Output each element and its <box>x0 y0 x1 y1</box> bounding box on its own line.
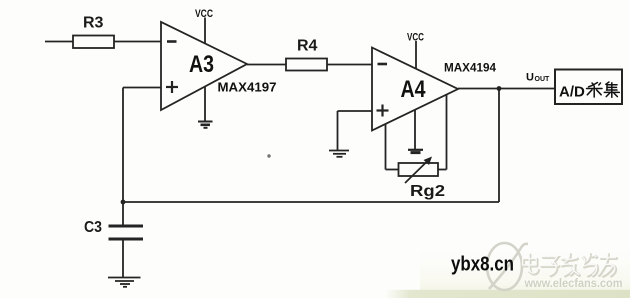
svg-text:A3: A3 <box>189 51 214 78</box>
VCC supply of A4 <box>407 32 424 69</box>
A/D acquisition box <box>555 70 622 105</box>
ground below C3 <box>108 278 141 287</box>
A4 minus pin mark <box>378 63 388 66</box>
wire A3 output to R4 <box>247 64 286 66</box>
svg-text:C3: C3 <box>84 219 102 236</box>
resistor R3 <box>73 36 114 49</box>
feedback wire bottom <box>123 89 499 203</box>
watermark url text <box>523 277 623 290</box>
wire Rg2 right to A4 output side <box>438 94 447 170</box>
A3 plus pin mark <box>166 81 178 93</box>
wire R3 to A3 inverting input <box>114 41 161 43</box>
wire A4 pin to Rg2 left <box>386 124 399 170</box>
svg-text:MAX4194: MAX4194 <box>444 61 496 75</box>
wire A3 plus input to left <box>123 88 161 203</box>
potentiometer Rg2 <box>399 157 439 184</box>
svg-text:R4: R4 <box>297 38 318 55</box>
node junction at C3 <box>121 200 126 205</box>
watermark brand glyphs <box>523 254 617 277</box>
svg-text:A/D: A/D <box>559 84 585 101</box>
stray ink speck <box>267 154 270 157</box>
A4 plus pin mark <box>377 105 389 117</box>
ground at A4 plus input <box>329 151 349 157</box>
resistor R4 <box>286 59 327 71</box>
ground below A4 <box>408 110 423 153</box>
capacitor C3 <box>109 202 144 277</box>
watermark area background tint <box>385 236 630 298</box>
svg-text:A4: A4 <box>401 76 427 103</box>
svg-text:R3: R3 <box>83 15 104 32</box>
svg-text:VCC: VCC <box>195 8 213 20</box>
svg-text:www.elecfans.com: www.elecfans.com <box>524 278 623 290</box>
svg-text:MAX4197: MAX4197 <box>218 80 277 95</box>
wire R4 to A4 inverting input <box>327 64 372 66</box>
VCC supply of A3 <box>195 8 213 44</box>
wire input to R3 <box>45 41 73 43</box>
wire A4 output to A/D box <box>458 88 555 90</box>
A3 minus pin mark <box>167 40 177 43</box>
svg-text:Rg2: Rg2 <box>410 183 445 200</box>
svg-text:U: U <box>526 72 534 84</box>
wire A4 plus input to ground <box>338 111 373 150</box>
svg-text:ybx8.cn: ybx8.cn <box>451 254 514 276</box>
watermark site logo <box>487 243 528 290</box>
svg-text:OUT: OUT <box>535 76 551 83</box>
ground below A3 <box>198 87 213 128</box>
label Uout <box>526 72 550 84</box>
node junction at output <box>497 86 502 91</box>
op-amp A3 <box>161 22 247 110</box>
op-amp A4 <box>372 48 458 131</box>
